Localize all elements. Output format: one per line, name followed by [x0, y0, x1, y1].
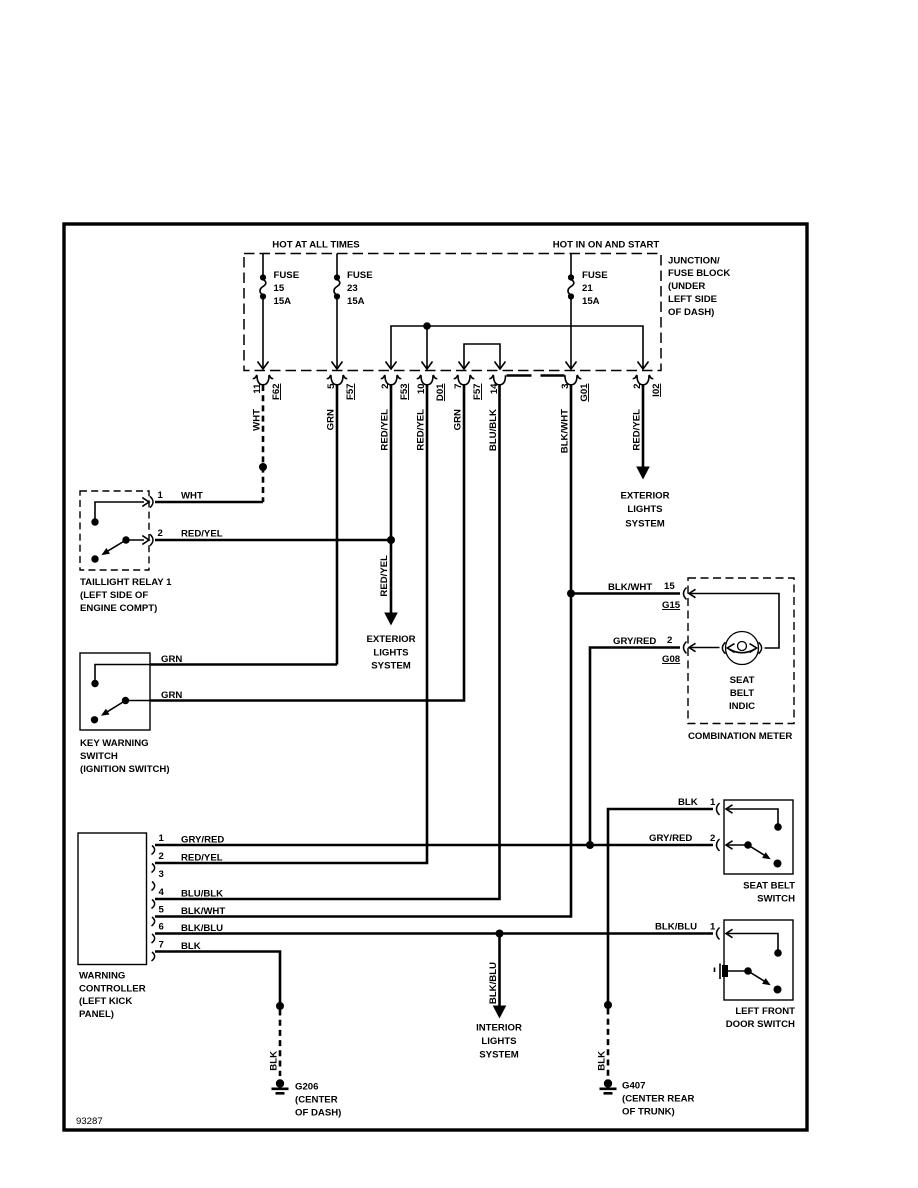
svg-text:BLK/WHT: BLK/WHT — [181, 906, 225, 917]
wire bus drop at 427 — [426, 326, 428, 369]
wire GRY/RED controller pin1 to seat belt switch — [155, 844, 713, 847]
junction dot GRY/RED — [586, 841, 594, 849]
svg-text:BLK/BLU: BLK/BLU — [181, 923, 223, 934]
label SEAT BELT INDIC — [729, 675, 755, 712]
meter internal wire pin2 to lamp — [689, 647, 720, 649]
svg-text:LEFT SIDE: LEFT SIDE — [668, 294, 718, 305]
door switch plunger — [715, 964, 729, 980]
meter pin2 arrow — [689, 643, 696, 651]
svg-text:F53: F53 — [399, 384, 410, 401]
svg-text:5: 5 — [159, 905, 165, 916]
svg-text:15A: 15A — [582, 296, 600, 307]
arrow to exterior lights right — [636, 467, 650, 480]
svg-text:LIGHTS: LIGHTS — [627, 504, 663, 515]
arrow to interior lights — [493, 1006, 507, 1019]
svg-text:2: 2 — [710, 833, 715, 844]
svg-text:RED/YEL: RED/YEL — [380, 409, 391, 451]
junction dot relay output — [387, 536, 395, 544]
seat belt indicator lamp circle — [726, 632, 759, 665]
label TAILLIGHT RELAY 1 (LEFT SIDE OF ENGINE COMPT) — [80, 577, 172, 614]
meter internal wire pin15 to lamp — [689, 594, 779, 649]
key switch internal wire 2 — [126, 700, 151, 702]
bridge wire pins 7-14 — [464, 344, 500, 369]
seatbelt internal wire pin1 — [726, 809, 778, 824]
label SEAT BELT SWITCH — [743, 881, 795, 905]
svg-text:RED/YEL: RED/YEL — [632, 409, 643, 451]
svg-text:GRN: GRN — [161, 654, 182, 665]
door switch internal contact dot — [774, 949, 782, 957]
svg-text:G407: G407 — [622, 1081, 645, 1092]
svg-text:BLU/BLK: BLU/BLK — [181, 889, 223, 900]
left front door switch box — [724, 920, 793, 1000]
lamp filament loop — [738, 642, 747, 651]
door switch pin1 arrow — [726, 929, 733, 937]
door switch arm arrowhead — [762, 978, 771, 985]
pin 2 socket arc — [152, 864, 155, 873]
relay pin2 socket arc — [150, 534, 153, 545]
svg-text:COMBINATION METER: COMBINATION METER — [688, 731, 792, 742]
svg-text:SEAT: SEAT — [730, 675, 755, 686]
wire RED/YEL vertical D01 to controller pin 2 — [155, 385, 427, 863]
connector Y at pin 2 I02 — [633, 375, 654, 385]
svg-text:GRN: GRN — [326, 409, 337, 430]
svg-text:RED/YEL: RED/YEL — [181, 853, 223, 864]
svg-text:2: 2 — [158, 528, 163, 539]
key warning switch box — [80, 653, 150, 730]
svg-text:FUSE: FUSE — [582, 270, 608, 281]
svg-text:EXTERIOR: EXTERIOR — [620, 490, 669, 501]
door switch pin1 socket arc — [717, 928, 720, 940]
splice dot BLK left — [276, 1002, 284, 1010]
junction dot on bus — [423, 322, 431, 330]
wire WHT dashed vertical — [262, 385, 265, 502]
svg-text:5: 5 — [326, 383, 337, 389]
svg-text:BLK: BLK — [678, 797, 698, 808]
svg-text:1: 1 — [159, 833, 165, 844]
relay pin1 socket arc — [150, 496, 153, 507]
svg-text:23: 23 — [347, 283, 358, 294]
svg-text:RED/YEL: RED/YEL — [379, 555, 390, 597]
key switch fixed contact dot — [91, 716, 98, 723]
svg-text:F57: F57 — [472, 384, 483, 401]
svg-text:WHT: WHT — [181, 491, 203, 502]
svg-text:15A: 15A — [347, 296, 365, 307]
bus wire inside fuse block — [391, 326, 643, 369]
svg-text:(IGNITION SWITCH): (IGNITION SWITCH) — [80, 764, 170, 775]
wire BLK dashed to G407 — [607, 1009, 610, 1077]
label KEY WARNING SWITCH (IGNITION SWITCH) — [80, 738, 170, 775]
relay fixed contact dot — [91, 555, 98, 562]
svg-text:HOT IN ON AND START: HOT IN ON AND START — [553, 240, 660, 251]
svg-text:FUSE: FUSE — [347, 270, 373, 281]
arrow into block at 464 — [459, 362, 470, 370]
arrow into block at 427 — [422, 362, 433, 370]
arrow into block at 391 — [386, 362, 397, 370]
wire BLU/BLK vertical to controller pin 4 — [155, 385, 500, 899]
connector Y at pin 2 F53 — [381, 375, 402, 385]
ground G206 — [272, 1079, 289, 1093]
wire GRN vertical to key warning switch — [336, 385, 339, 665]
relay internal wire pin 2 — [126, 539, 144, 541]
arrow into block at 643 — [638, 362, 649, 370]
svg-text:G206: G206 — [295, 1082, 318, 1093]
relay switch arm — [108, 540, 127, 551]
seatbelt pin1 arrow — [726, 805, 733, 813]
border frame — [64, 224, 807, 1130]
wire BLK/BLU controller pin6 to door switch — [155, 932, 713, 935]
wire BLK dashed to G206 — [279, 1010, 282, 1077]
svg-text:JUNCTION/: JUNCTION/ — [668, 255, 720, 266]
pin 6 socket arc — [152, 934, 155, 943]
wire RED/YEL vertical F53 — [390, 385, 393, 613]
svg-text:LIGHTS: LIGHTS — [481, 1036, 517, 1047]
warning controller box — [78, 833, 147, 965]
svg-text:(UNDER: (UNDER — [668, 281, 705, 292]
ground G407 — [600, 1079, 617, 1093]
relay arm pivot dot — [122, 536, 129, 543]
svg-text:BELT: BELT — [730, 688, 754, 699]
label INTERIOR LIGHTS SYSTEM — [476, 1023, 522, 1061]
svg-text:F57: F57 — [345, 384, 356, 401]
label WARNING CONTROLLER (LEFT KICK PANEL) — [79, 970, 146, 1020]
svg-text:21: 21 — [582, 283, 593, 294]
meter pin15 arrow — [689, 589, 696, 597]
label JUNCTION/FUSE BLOCK (UNDER LEFT SIDE OF DASH) — [668, 255, 730, 318]
junction/fuse block dashed box — [244, 254, 661, 371]
wire GRN vertical to key warning switch pin 2 — [150, 385, 464, 701]
connector Y at pin 10 D01 — [417, 375, 438, 385]
svg-text:GRN: GRN — [161, 690, 182, 701]
splice dot on WHT wire — [259, 463, 267, 471]
wire RED/YEL relay output — [155, 539, 391, 542]
svg-text:93287: 93287 — [76, 1116, 103, 1127]
door switch internal wire pin1 — [726, 934, 778, 951]
wire GRY/RED to meter pin 2 — [590, 648, 680, 846]
svg-text:G15: G15 — [662, 600, 681, 611]
relay internal wire pin 1 — [95, 502, 144, 522]
connector Y at pin 3 G01 — [565, 375, 581, 385]
fuse 15 15A — [258, 254, 300, 370]
lamp left socket arc — [722, 642, 725, 654]
seatbelt pin2 arrow — [726, 841, 733, 849]
wire BLK/WHT vertical to controller pin 5 — [155, 385, 571, 917]
label EXTERIOR LIGHTS SYSTEM right — [620, 490, 669, 529]
connector Y at pin 11 F62 — [253, 375, 274, 385]
seatbelt switch pivot dot — [744, 841, 752, 849]
svg-text:FUSE BLOCK: FUSE BLOCK — [668, 268, 730, 279]
lamp right socket arc — [759, 642, 762, 654]
dashed link wire pin14 to pin3 — [507, 374, 565, 377]
svg-text:WHT: WHT — [252, 409, 263, 431]
connector Y at pin 14 — [489, 375, 505, 385]
svg-text:LEFT FRONT: LEFT FRONT — [735, 1006, 795, 1017]
svg-text:7: 7 — [159, 940, 164, 951]
wire BLK/BLU branch to interior lights — [498, 934, 501, 1007]
svg-text:SYSTEM: SYSTEM — [371, 661, 410, 672]
svg-text:INDIC: INDIC — [729, 701, 755, 712]
door switch pivot dot — [744, 967, 752, 975]
lamp filament — [729, 649, 755, 653]
svg-text:DOOR SWITCH: DOOR SWITCH — [726, 1019, 795, 1030]
svg-text:GRY/RED: GRY/RED — [649, 833, 692, 844]
wire BLK/WHT to meter pin 15 — [571, 592, 680, 595]
door switch arm — [748, 971, 765, 981]
svg-text:LIGHTS: LIGHTS — [373, 647, 409, 658]
door switch fixed contact dot — [774, 986, 782, 994]
seat belt switch box — [724, 800, 793, 874]
svg-text:1: 1 — [710, 922, 716, 933]
svg-text:BLK: BLK — [269, 1051, 280, 1071]
arrow to exterior lights — [384, 613, 398, 626]
relay pin2 arrow — [142, 536, 149, 545]
svg-text:SWITCH: SWITCH — [757, 893, 795, 904]
svg-text:BLK/BLU: BLK/BLU — [488, 962, 499, 1004]
svg-text:BLK/WHT: BLK/WHT — [608, 582, 652, 593]
svg-text:15A: 15A — [274, 296, 292, 307]
label LEFT FRONT DOOR SWITCH — [726, 1006, 795, 1030]
svg-text:RED/YEL: RED/YEL — [181, 529, 223, 540]
pin 4 socket arc — [152, 900, 155, 909]
splice dot BLK right — [604, 1001, 612, 1009]
lamp right arrow — [750, 644, 757, 653]
pin 7 socket arc — [152, 952, 155, 961]
seatbelt pin1 socket arc — [717, 803, 720, 815]
wire BLK controller pin7 to ground — [155, 952, 280, 1005]
pin 5 socket arc — [152, 917, 155, 926]
relay arm arrowhead — [101, 548, 110, 555]
arrow into block at 500 — [495, 362, 506, 370]
wire GRN key switch upper — [150, 663, 337, 666]
svg-text:2: 2 — [632, 384, 643, 389]
seatbelt arm arrowhead — [762, 852, 771, 859]
svg-text:SYSTEM: SYSTEM — [625, 519, 664, 530]
wire BLK seat belt switch pin1 — [608, 809, 713, 1002]
relay pin1 arrow — [142, 498, 149, 507]
svg-text:2: 2 — [159, 851, 164, 862]
svg-text:BLU/BLK: BLU/BLK — [488, 409, 499, 451]
relay internal contact dot — [91, 518, 98, 525]
connector Y at pin 5 F57 — [327, 375, 348, 385]
seatbelt internal wire pin2 — [726, 844, 748, 846]
key switch arm — [107, 701, 126, 712]
svg-text:HOT AT ALL TIMES: HOT AT ALL TIMES — [272, 240, 360, 251]
svg-text:(CENTER: (CENTER — [295, 1094, 338, 1105]
svg-text:3: 3 — [560, 384, 571, 389]
seatbelt switch arm — [748, 845, 765, 855]
svg-text:(CENTER REAR: (CENTER REAR — [622, 1093, 695, 1104]
svg-text:1: 1 — [710, 797, 716, 808]
svg-text:I02: I02 — [651, 384, 662, 397]
wire RED/YEL vertical I02 to exterior lights — [642, 385, 645, 467]
svg-text:BLK/WHT: BLK/WHT — [560, 409, 571, 453]
svg-text:2: 2 — [380, 384, 391, 389]
svg-text:BLK: BLK — [181, 941, 201, 952]
svg-text:SYSTEM: SYSTEM — [479, 1050, 518, 1061]
svg-text:PANEL): PANEL) — [79, 1009, 114, 1020]
meter pin15 socket arc — [684, 588, 687, 600]
label EXTERIOR LIGHTS SYSTEM — [366, 634, 415, 672]
label G206 (CENTER OF DASH) — [295, 1082, 341, 1119]
svg-text:6: 6 — [159, 922, 164, 933]
svg-text:GRY/RED: GRY/RED — [181, 835, 224, 846]
key switch contact dot — [91, 680, 98, 687]
svg-text:ENGINE COMPT): ENGINE COMPT) — [80, 603, 157, 614]
svg-text:15: 15 — [274, 283, 285, 294]
svg-text:11: 11 — [252, 383, 263, 394]
seatbelt fixed contact dot — [774, 860, 782, 868]
svg-text:FUSE: FUSE — [274, 270, 300, 281]
svg-text:TAILLIGHT RELAY 1: TAILLIGHT RELAY 1 — [80, 577, 172, 588]
taillight relay 1 dashed box — [80, 491, 149, 570]
svg-text:10: 10 — [416, 384, 427, 395]
fuse 23 15A — [332, 254, 374, 370]
svg-text:3: 3 — [159, 869, 164, 880]
connector Y at pin 7 F57 — [454, 375, 475, 385]
svg-text:(LEFT SIDE OF: (LEFT SIDE OF — [80, 590, 148, 601]
label G407 (CENTER REAR OF TRUNK) — [622, 1081, 695, 1118]
svg-text:INTERIOR: INTERIOR — [476, 1023, 522, 1034]
svg-text:1: 1 — [158, 490, 164, 501]
svg-text:SWITCH: SWITCH — [80, 751, 118, 762]
pin 3 socket arc — [152, 882, 155, 891]
svg-text:BLK/BLU: BLK/BLU — [655, 922, 697, 933]
svg-text:D01: D01 — [435, 383, 446, 401]
svg-text:4: 4 — [159, 887, 165, 898]
seatbelt pin2 socket arc — [717, 839, 720, 851]
junction dot BLK/BLU — [496, 930, 504, 938]
svg-text:F62: F62 — [271, 384, 282, 401]
pin 1 socket arc — [152, 846, 155, 855]
wire WHT relay to F62 — [155, 501, 263, 504]
svg-text:CONTROLLER: CONTROLLER — [79, 983, 146, 994]
svg-text:OF TRUNK): OF TRUNK) — [622, 1106, 675, 1117]
meter pin2 socket arc — [684, 642, 687, 654]
svg-text:BLK: BLK — [597, 1051, 608, 1071]
svg-text:2: 2 — [667, 635, 672, 646]
key switch pivot dot — [122, 697, 129, 704]
svg-text:SEAT BELT: SEAT BELT — [743, 881, 795, 892]
door switch internal wire — [728, 970, 748, 972]
svg-text:KEY WARNING: KEY WARNING — [80, 738, 149, 749]
lamp left arrow — [727, 644, 734, 653]
svg-text:GRN: GRN — [453, 409, 464, 430]
svg-text:OF DASH): OF DASH) — [668, 307, 714, 318]
combination meter dashed box — [688, 578, 794, 724]
svg-text:15: 15 — [664, 581, 675, 592]
svg-text:GRY/RED: GRY/RED — [613, 636, 656, 647]
svg-text:(LEFT KICK: (LEFT KICK — [79, 996, 132, 1007]
key switch internal wire 1 — [95, 665, 150, 684]
key switch arm arrowhead — [101, 709, 110, 716]
svg-text:G01: G01 — [579, 383, 590, 402]
junction dot BLK/WHT to meter — [567, 590, 575, 598]
svg-text:WARNING: WARNING — [79, 970, 125, 981]
seatbelt internal contact dot — [774, 823, 782, 831]
svg-text:EXTERIOR: EXTERIOR — [366, 634, 415, 645]
svg-text:7: 7 — [453, 384, 464, 389]
svg-text:G08: G08 — [662, 654, 681, 665]
fuse 21 15A — [566, 254, 609, 370]
svg-text:RED/YEL: RED/YEL — [416, 409, 427, 451]
svg-text:OF DASH): OF DASH) — [295, 1107, 341, 1118]
